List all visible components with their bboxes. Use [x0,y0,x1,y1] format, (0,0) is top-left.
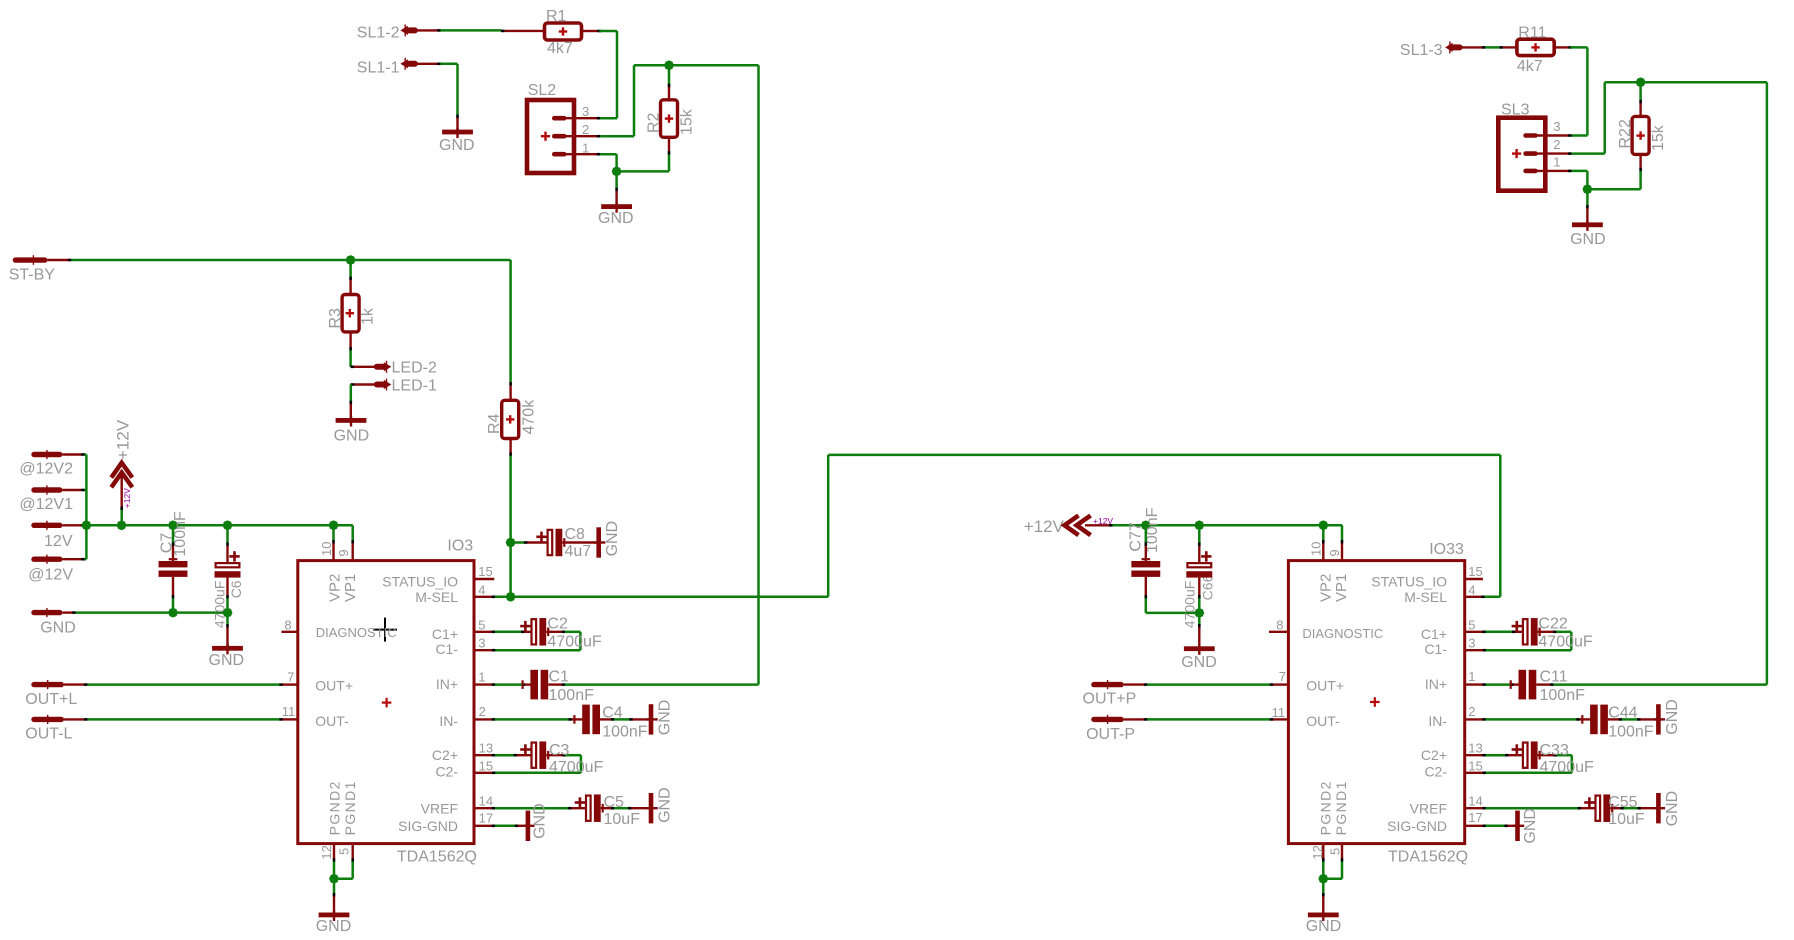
svg-text:4k7: 4k7 [1517,58,1543,75]
svg-text:7: 7 [287,669,294,684]
svg-text:C1-: C1- [435,641,458,657]
svg-text:STATUS_IO: STATUS_IO [1371,573,1447,589]
svg-text:3: 3 [1553,119,1560,134]
svg-text:4700uF: 4700uF [547,634,601,651]
svg-text:4k7: 4k7 [547,40,573,57]
svg-text:2: 2 [1553,137,1560,152]
svg-text:2: 2 [582,122,589,137]
svg-text:3: 3 [478,636,485,651]
svg-text:10: 10 [319,542,334,556]
svg-text:100nF: 100nF [1608,723,1654,740]
svg-text:C55: C55 [1608,794,1637,811]
svg-text:15: 15 [1468,758,1482,773]
svg-text:GND: GND [657,787,674,823]
svg-text:GND: GND [1664,791,1681,827]
svg-text:14: 14 [479,793,493,808]
svg-text:C2-: C2- [435,763,458,779]
svg-text:PGND1: PGND1 [1333,780,1349,835]
svg-text:+12V: +12V [1093,516,1113,526]
svg-text:SL2: SL2 [528,82,557,99]
svg-text:3: 3 [1468,636,1475,651]
svg-text:GND: GND [1306,918,1342,935]
svg-text:11: 11 [1272,705,1286,720]
svg-text:4u7: 4u7 [565,543,592,560]
svg-text:R3: R3 [327,308,344,329]
svg-text:470k: 470k [521,399,538,435]
svg-text:OUT-: OUT- [1306,713,1340,729]
svg-text:GND: GND [209,652,245,669]
svg-text:17: 17 [479,811,493,826]
svg-text:10uF: 10uF [604,811,641,828]
svg-text:DIAGNOSTIC: DIAGNOSTIC [316,625,397,640]
svg-text:4700uF: 4700uF [212,581,228,628]
svg-text:DIAGNOSTIC: DIAGNOSTIC [1302,626,1383,641]
svg-text:VP1: VP1 [342,574,359,602]
svg-text:3: 3 [582,104,589,119]
svg-text:R22: R22 [1617,119,1634,148]
svg-text:4700uF: 4700uF [1540,759,1594,776]
svg-text:+12V: +12V [122,488,132,508]
svg-text:@12V2: @12V2 [19,461,73,478]
svg-text:IN+: IN+ [436,676,458,692]
svg-text:@12V1: @12V1 [19,496,73,513]
svg-text:5: 5 [1468,617,1475,632]
svg-text:C3: C3 [549,742,570,759]
svg-text:R2: R2 [646,112,663,133]
svg-text:C2-: C2- [1424,763,1447,779]
svg-text:8: 8 [284,617,291,632]
svg-text:VREF: VREF [1410,800,1447,816]
svg-text:2: 2 [479,704,486,719]
svg-text:VREF: VREF [421,800,458,816]
svg-text:GND: GND [316,918,352,935]
svg-text:OUT+: OUT+ [315,678,353,694]
svg-text:13: 13 [479,740,493,755]
svg-text:C2+: C2+ [432,747,458,763]
svg-text:C77: C77 [1127,522,1144,551]
svg-text:OUT+P: OUT+P [1083,690,1137,707]
svg-text:17: 17 [1468,810,1482,825]
svg-text:GND: GND [598,210,634,227]
svg-text:GND: GND [1664,699,1681,735]
svg-text:@12V: @12V [28,566,73,583]
svg-text:1: 1 [1468,669,1475,684]
svg-text:SL1-1: SL1-1 [357,59,400,76]
svg-text:IN-: IN- [1428,713,1447,729]
svg-text:OUT-P: OUT-P [1086,726,1135,743]
svg-text:TDA1562Q: TDA1562Q [1388,848,1468,865]
svg-text:C1: C1 [549,669,570,686]
svg-text:14: 14 [1468,793,1482,808]
svg-text:15: 15 [1468,564,1482,579]
svg-text:C1+: C1+ [1421,626,1447,642]
svg-text:4700uF: 4700uF [549,759,603,776]
svg-text:1: 1 [582,140,589,155]
svg-text:5: 5 [336,848,351,855]
svg-text:C1-: C1- [1424,641,1447,657]
svg-text:GND: GND [1570,231,1606,248]
svg-text:PGND1: PGND1 [342,780,358,835]
svg-text:15k: 15k [679,108,696,135]
svg-text:IO33: IO33 [1429,541,1464,558]
svg-text:SIG-GND: SIG-GND [1387,818,1447,834]
svg-text:OUT-: OUT- [315,713,349,729]
svg-text:12: 12 [319,845,334,859]
svg-text:2: 2 [1468,704,1475,719]
svg-text:15: 15 [479,759,493,774]
svg-text:10: 10 [1308,542,1323,556]
svg-text:R4: R4 [486,413,503,434]
svg-text:C22: C22 [1538,616,1567,633]
svg-text:PGND2: PGND2 [1318,780,1334,835]
svg-text:R11: R11 [1518,24,1546,41]
svg-text:9: 9 [1327,549,1342,556]
svg-text:15k: 15k [1650,124,1667,151]
svg-text:TDA1562Q: TDA1562Q [397,848,477,865]
svg-text:15: 15 [478,564,492,579]
svg-text:IO3: IO3 [447,537,473,554]
svg-text:C8: C8 [565,526,586,543]
svg-text:C1+: C1+ [432,626,458,642]
svg-text:1: 1 [1553,155,1560,170]
svg-text:IN+: IN+ [1425,676,1447,692]
svg-text:1: 1 [478,669,485,684]
svg-text:8: 8 [1276,617,1283,632]
svg-text:7: 7 [1279,669,1286,684]
svg-text:+12V: +12V [1024,517,1065,536]
svg-text:M-SEL: M-SEL [415,589,458,605]
svg-text:LED-1: LED-1 [392,377,437,394]
svg-text:10uF: 10uF [1608,811,1645,828]
svg-text:C44: C44 [1608,705,1637,722]
svg-text:11: 11 [282,704,296,719]
svg-text:SIG-GND: SIG-GND [398,818,458,834]
svg-text:9: 9 [336,549,351,556]
svg-text:100nF: 100nF [602,723,648,740]
svg-text:STATUS_IO: STATUS_IO [382,573,458,589]
svg-text:OUT+L: OUT+L [25,691,77,708]
svg-text:GND: GND [604,521,621,557]
svg-text:C4: C4 [602,705,623,722]
svg-text:IN-: IN- [439,713,458,729]
svg-text:4: 4 [1468,582,1475,597]
svg-text:GND: GND [1181,654,1217,671]
svg-text:+12V: +12V [113,419,132,460]
svg-text:ST-BY: ST-BY [9,267,56,284]
svg-text:100nF: 100nF [549,687,595,704]
svg-text:4700uF: 4700uF [1182,581,1198,628]
svg-text:M-SEL: M-SEL [1404,589,1447,605]
svg-text:C2+: C2+ [1421,747,1447,763]
svg-text:1k: 1k [359,307,376,325]
svg-text:OUT+: OUT+ [1306,678,1344,694]
svg-text:GND: GND [1522,808,1539,844]
svg-text:12V: 12V [44,533,73,550]
svg-text:GND: GND [40,619,76,636]
svg-text:C6: C6 [228,580,244,598]
svg-text:C33: C33 [1540,742,1569,759]
svg-text:GND: GND [532,803,549,839]
svg-text:SL3: SL3 [1501,102,1530,119]
svg-text:LED-2: LED-2 [392,360,437,377]
svg-text:5: 5 [1327,848,1342,855]
svg-text:VP1: VP1 [1333,574,1350,602]
svg-text:4700uF: 4700uF [1538,634,1592,651]
svg-text:C66: C66 [1200,574,1216,600]
svg-text:C5: C5 [604,794,625,811]
svg-text:C11: C11 [1540,669,1568,686]
svg-text:SL1-3: SL1-3 [1400,42,1443,59]
svg-text:5: 5 [478,617,485,632]
svg-text:100nF: 100nF [172,511,189,557]
svg-text:13: 13 [1468,740,1482,755]
svg-text:100nF: 100nF [1540,687,1586,704]
svg-text:GND: GND [439,137,475,154]
svg-text:GND: GND [657,700,674,736]
svg-text:OUT-L: OUT-L [25,726,72,743]
svg-text:4: 4 [478,582,485,597]
svg-text:C2: C2 [547,616,568,633]
svg-text:SL1-2: SL1-2 [357,25,400,42]
svg-text:GND: GND [334,428,370,445]
svg-text:PGND2: PGND2 [327,780,343,835]
svg-text:R1: R1 [546,8,567,25]
